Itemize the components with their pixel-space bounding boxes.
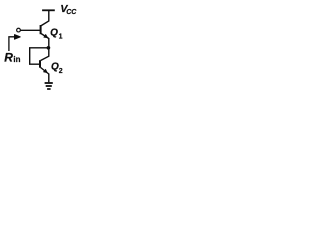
transistor Q1 (NPN) [41, 25, 49, 39]
wire feedback loop node to Q2 base [30, 48, 49, 64]
Q1 base bar [40, 25, 42, 34]
svg-text:2: 2 [59, 68, 63, 75]
arrow Rin looking-in [9, 35, 20, 51]
node input terminal circle [17, 28, 21, 32]
ground [45, 83, 53, 89]
power rail VCC bar [42, 9, 55, 11]
Q1 emitter arrowhead [44, 34, 48, 37]
wire node down to Q2 collector [41, 48, 49, 61]
Q1 emitter diagonal [41, 34, 49, 39]
svg-text:1: 1 [59, 34, 63, 41]
transistor Q2 (NPN diode-connected) [40, 60, 49, 74]
wire Q2 emitter to ground [48, 74, 50, 83]
svg-text:Q: Q [51, 62, 59, 73]
Q2 emitter diagonal [41, 68, 49, 75]
svg-text:R: R [4, 50, 13, 64]
wire input to Q1 base [21, 29, 41, 31]
node junction dot [47, 46, 51, 50]
background [0, 0, 85, 95]
wire Q1 emitter down to node [48, 38, 50, 48]
wire VCC stem to Q1 collector [41, 11, 49, 26]
svg-text:CC: CC [66, 8, 77, 16]
svg-text:Q: Q [50, 27, 58, 38]
Q2 emitter arrowhead [44, 69, 48, 72]
Q2 base bar [39, 60, 41, 67]
svg-text:in: in [13, 55, 20, 64]
